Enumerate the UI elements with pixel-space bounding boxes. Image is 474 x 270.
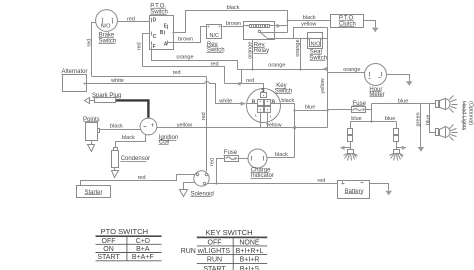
hour meter ground bbox=[387, 75, 413, 86]
seat switch bbox=[308, 33, 328, 62]
wire red brake left down bbox=[87, 23, 96, 77]
svg-text:B: B bbox=[160, 30, 164, 36]
svg-text:N/C: N/C bbox=[210, 33, 220, 39]
svg-text:yellow: yellow bbox=[177, 122, 192, 128]
svg-text:brown: brown bbox=[178, 37, 193, 43]
svg-text:red: red bbox=[209, 158, 215, 166]
svg-text:blue: blue bbox=[425, 115, 431, 125]
wire brown PTO A to rev switch bbox=[168, 27, 207, 43]
wire red brake run y76 bbox=[92, 70, 207, 76]
wire red fuse feed bbox=[209, 158, 224, 184]
wire blue fuse output bbox=[366, 104, 372, 122]
wire orange tap to red bbox=[241, 70, 243, 84]
wire seat switch right to yellow vertical bbox=[322, 38, 328, 40]
svg-text:orange: orange bbox=[176, 55, 193, 61]
svg-text:B+A: B+A bbox=[136, 246, 150, 253]
svg-text:yellow: yellow bbox=[301, 21, 316, 27]
svg-text:yellow: yellow bbox=[266, 122, 281, 128]
svg-text:START: START bbox=[97, 254, 120, 261]
wire red PTO C left-down bbox=[136, 34, 149, 67]
svg-text:green: green bbox=[415, 112, 421, 126]
wire yellow jumper over seat switch bbox=[294, 21, 328, 38]
wire blue dash lamp bus bbox=[351, 116, 397, 123]
points ground bbox=[88, 141, 95, 152]
svg-text:L: L bbox=[255, 113, 258, 118]
condensor bbox=[112, 148, 151, 168]
dash lamp right bbox=[390, 122, 407, 161]
svg-text:orange: orange bbox=[268, 62, 285, 68]
wire blue headlight drop bbox=[425, 104, 435, 133]
wire yellow vertical feed bbox=[295, 28, 328, 128]
spark plug bbox=[85, 93, 122, 104]
wire black coil to condensor bbox=[116, 135, 146, 148]
ignition coil bbox=[140, 118, 178, 146]
svg-text:B: B bbox=[272, 99, 276, 105]
charge indicator bbox=[248, 149, 274, 179]
svg-text:KEY SWITCH: KEY SWITCH bbox=[205, 228, 252, 237]
svg-text:black: black bbox=[281, 98, 294, 104]
svg-text:red: red bbox=[138, 175, 146, 181]
svg-text:black: black bbox=[122, 135, 135, 141]
wire green headlight ground bbox=[415, 104, 424, 152]
wire brown rev switch to relay bbox=[223, 21, 244, 27]
svg-text:OFF: OFF bbox=[102, 238, 116, 245]
svg-text:F: F bbox=[153, 44, 156, 50]
svg-text:orange: orange bbox=[247, 42, 253, 59]
svg-text:blue: blue bbox=[305, 104, 315, 110]
svg-text:B+I+S: B+I+S bbox=[240, 266, 260, 270]
svg-text:black: black bbox=[227, 5, 240, 11]
svg-text:red: red bbox=[246, 78, 254, 84]
svg-text:red: red bbox=[136, 42, 142, 50]
wire yellow coil to key switch bbox=[157, 122, 296, 129]
svg-text:black: black bbox=[303, 15, 316, 21]
wire black charge indicator to junction bbox=[267, 152, 295, 158]
wire relay contact 1 to black vertical bbox=[275, 32, 288, 34]
svg-text:Battery: Battery bbox=[345, 189, 364, 195]
svg-text:white: white bbox=[110, 78, 124, 84]
svg-text:red: red bbox=[317, 178, 325, 184]
fuse (charge circuit) bbox=[224, 150, 239, 161]
points bbox=[83, 117, 100, 141]
wire red vertical to solenoid bbox=[201, 77, 207, 172]
svg-text:orange: orange bbox=[295, 39, 301, 56]
key switch bbox=[247, 83, 293, 127]
wire orange to hour meter bbox=[328, 67, 365, 73]
svg-text:brown: brown bbox=[226, 21, 241, 27]
wire orange relay drop bbox=[247, 40, 253, 70]
svg-text:Starter: Starter bbox=[85, 190, 103, 196]
solenoid ground bbox=[180, 183, 196, 197]
brake switch bbox=[96, 10, 118, 45]
battery ground bbox=[370, 184, 393, 196]
wire black PTO B up over top bbox=[173, 5, 288, 32]
svg-text:C+D: C+D bbox=[136, 238, 150, 245]
svg-text:orange: orange bbox=[343, 67, 360, 73]
headlight lower bbox=[436, 125, 458, 141]
svg-text:R: R bbox=[252, 99, 256, 105]
wire red brake to PTO switch D bbox=[118, 16, 150, 22]
svg-text:PTO SWITCH: PTO SWITCH bbox=[101, 227, 149, 236]
wire black points to coil bbox=[100, 124, 141, 130]
spark plug thick wire to coil bbox=[116, 100, 148, 118]
headlight upper bbox=[436, 96, 458, 113]
svg-text:OFF: OFF bbox=[208, 240, 222, 247]
svg-text:yellow: yellow bbox=[320, 78, 326, 93]
wire fuse to charge indicator bbox=[238, 158, 248, 160]
svg-text:B+I+R+L: B+I+R+L bbox=[236, 248, 264, 255]
alternator bbox=[62, 69, 88, 91]
PTO clutch ground bbox=[364, 21, 379, 33]
svg-text:red: red bbox=[201, 112, 207, 120]
svg-text:I: I bbox=[270, 114, 271, 119]
wire red to starter bbox=[81, 175, 196, 186]
svg-text:red: red bbox=[173, 70, 181, 76]
svg-text:NONE: NONE bbox=[239, 240, 260, 247]
svg-text:red: red bbox=[211, 62, 219, 68]
PTO switch bbox=[150, 3, 174, 49]
fuse (lights) bbox=[352, 101, 367, 113]
PTO clutch bbox=[331, 15, 364, 28]
svg-text:N/O: N/O bbox=[101, 23, 112, 29]
wire red solenoid to battery bbox=[208, 178, 338, 185]
wire black node to PTO clutch bbox=[286, 15, 330, 22]
KEY switch table bbox=[181, 228, 268, 270]
wire relay coil output arrow to black node bbox=[275, 24, 288, 28]
wire relay contact 2 to seat switch bbox=[268, 38, 308, 40]
dash lamp left bbox=[340, 122, 358, 161]
wire red into key switch S bbox=[225, 78, 264, 93]
svg-text:(Optional): (Optional) bbox=[468, 101, 474, 125]
svg-text:Meter: Meter bbox=[369, 92, 384, 98]
svg-text:black: black bbox=[275, 152, 288, 158]
condensor ground bbox=[112, 168, 119, 178]
wire orange bus bbox=[238, 62, 328, 71]
svg-text:N/O: N/O bbox=[311, 42, 322, 48]
svg-text:ON: ON bbox=[103, 246, 114, 253]
svg-text:black: black bbox=[110, 124, 123, 130]
svg-text:blue: blue bbox=[385, 116, 395, 122]
wire orange PTO F down bbox=[152, 47, 238, 70]
starter bbox=[77, 186, 111, 198]
svg-text:B+A+F: B+A+F bbox=[132, 254, 154, 261]
hour meter bbox=[365, 64, 387, 98]
battery bbox=[338, 181, 370, 199]
rev switch bbox=[207, 25, 225, 54]
svg-text:RUN w/LIGHTS: RUN w/LIGHTS bbox=[181, 248, 231, 255]
svg-text:C: C bbox=[153, 34, 157, 40]
svg-text:blue: blue bbox=[398, 98, 408, 104]
svg-text:red: red bbox=[87, 39, 93, 47]
wire fuse main feed bbox=[328, 109, 352, 111]
svg-text:red: red bbox=[127, 16, 135, 22]
svg-text:RUN: RUN bbox=[207, 257, 222, 264]
wire blue to fuse node bbox=[295, 104, 329, 111]
svg-text:D: D bbox=[153, 18, 157, 24]
svg-text:B+I+R: B+I+R bbox=[240, 257, 260, 264]
wire orange seat switch drop bbox=[295, 39, 301, 70]
wire white alternator to key switch R (hop over red) bbox=[86, 78, 246, 106]
solenoid bbox=[191, 171, 214, 198]
svg-text:START: START bbox=[203, 266, 226, 270]
wire blue to headlights bbox=[372, 98, 436, 104]
svg-text:white: white bbox=[218, 98, 232, 104]
rev relay bbox=[244, 22, 275, 55]
head lights label bbox=[461, 101, 474, 131]
svg-text:blue: blue bbox=[351, 116, 361, 122]
PTO switch table bbox=[96, 227, 162, 261]
wire red C run to key area bbox=[143, 62, 225, 84]
wire black key switch B down bbox=[281, 98, 296, 157]
